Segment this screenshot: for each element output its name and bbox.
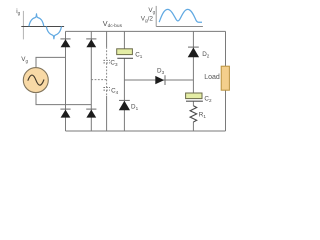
svg-text:Vg/2: Vg/2 [141, 16, 154, 23]
svg-text:Load: Load [204, 74, 220, 81]
